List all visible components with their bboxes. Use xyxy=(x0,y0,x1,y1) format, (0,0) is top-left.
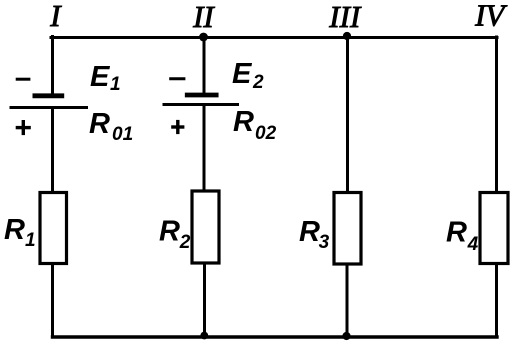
svg-text:I: I xyxy=(49,0,62,33)
svg-text:R: R xyxy=(299,216,320,248)
svg-text:2: 2 xyxy=(179,232,191,253)
svg-text:R: R xyxy=(4,214,25,246)
svg-text:III: III xyxy=(328,0,362,34)
svg-text:02: 02 xyxy=(255,123,277,144)
svg-text:R: R xyxy=(89,108,110,140)
svg-text:1: 1 xyxy=(25,230,36,251)
svg-text:4: 4 xyxy=(467,234,479,255)
svg-text:E: E xyxy=(90,61,111,93)
svg-text:IV: IV xyxy=(474,0,507,33)
svg-text:E: E xyxy=(232,58,253,90)
svg-text:2: 2 xyxy=(252,72,264,93)
svg-text:1: 1 xyxy=(110,74,121,95)
svg-text:3: 3 xyxy=(319,232,330,253)
svg-text:R: R xyxy=(446,216,467,248)
svg-text:R: R xyxy=(233,106,254,138)
svg-text:R: R xyxy=(159,216,180,248)
svg-text:01: 01 xyxy=(112,124,133,145)
svg-text:II: II xyxy=(192,0,215,34)
